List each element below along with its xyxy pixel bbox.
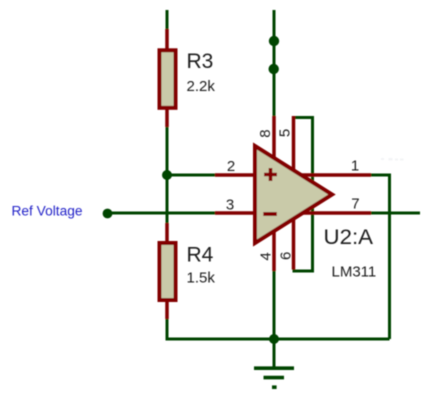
pin number 7	[351, 196, 359, 213]
svg-text:LM311: LM311	[332, 263, 377, 280]
pin number 6	[278, 252, 295, 260]
svg-text:Ref Voltage: Ref Voltage	[12, 204, 83, 219]
svg-text:5: 5	[276, 129, 293, 137]
wire pin2 horizontal green	[166, 174, 217, 177]
op-amp U2:A triangle body	[255, 146, 332, 243]
resistor R3 body	[160, 50, 176, 108]
pin 3 stub	[215, 211, 257, 215]
junction dot ground rail	[269, 334, 279, 344]
pin R3 bottom	[165, 108, 169, 127]
pin 8 stub	[272, 116, 276, 160]
junction dot lower on middle wire	[269, 64, 279, 74]
svg-text:7: 7	[351, 196, 359, 213]
pin 5 stub	[292, 116, 296, 172]
faint artifact dots	[381, 158, 404, 161]
wire R4 bottom to ground rail	[166, 318, 169, 338]
pin 6 stub	[292, 217, 296, 270]
svg-text:R3: R3	[187, 50, 214, 73]
label R3	[187, 50, 214, 73]
pin number 5	[276, 129, 293, 137]
svg-text:6: 6	[278, 252, 295, 260]
pin 4 stub	[272, 228, 276, 271]
pin number 3	[226, 197, 234, 214]
wire R3 bottom to R4 top (through junction)	[166, 126, 169, 224]
value 1.5k	[187, 269, 216, 286]
value 2.2k	[187, 78, 216, 95]
svg-text:U2:A: U2:A	[324, 226, 374, 249]
junction dot upper on middle wire	[269, 36, 279, 46]
label R4	[187, 243, 214, 266]
label U2:A	[324, 226, 374, 249]
svg-text:3: 3	[226, 197, 234, 214]
wire pin5-pin6 loop	[293, 118, 313, 272]
op-amp minus symbol	[263, 212, 277, 216]
wire pin7 to right edge	[371, 212, 420, 215]
pin 1 stub	[300, 173, 371, 177]
op-amp plus symbol	[264, 168, 277, 181]
pin number 1	[351, 158, 359, 175]
wire top middle vertical to pin 8	[273, 10, 276, 118]
wire pin3 horizontal green from terminal	[107, 212, 216, 215]
svg-text:2.2k: 2.2k	[187, 78, 216, 95]
junction dot R3/R4 with pin2 wire	[162, 170, 172, 180]
pin R4 bottom	[165, 300, 169, 319]
value LM311	[332, 263, 377, 280]
pin 2 stub	[215, 173, 257, 177]
pin R3 top	[165, 29, 169, 50]
pin number 8	[257, 129, 274, 137]
wire pin4 down to ground rail	[273, 270, 276, 339]
terminal dot Ref Voltage	[103, 209, 113, 219]
wire top-left vertical to R3	[166, 10, 169, 31]
svg-text:1: 1	[351, 158, 359, 175]
svg-text:1.5k: 1.5k	[187, 269, 216, 286]
svg-text:8: 8	[257, 129, 274, 137]
pin number 4	[258, 252, 275, 260]
resistor R4 body	[160, 243, 176, 300]
svg-text:2: 2	[227, 158, 235, 175]
svg-text:R4: R4	[187, 243, 214, 266]
pin number 2	[227, 158, 235, 175]
ground symbol	[254, 368, 294, 387]
svg-text:4: 4	[258, 252, 275, 260]
pin 7 stub	[302, 211, 371, 215]
label Ref Voltage	[12, 204, 83, 219]
pin R4 top	[165, 223, 169, 243]
wire ground stub	[273, 339, 276, 367]
wire bottom ground rail horizontal	[166, 338, 390, 341]
wire pin1 to right vertical down to rail	[371, 175, 390, 339]
